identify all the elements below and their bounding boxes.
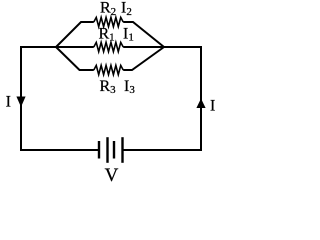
label I (left) bbox=[6, 94, 11, 111]
svg-text:I: I bbox=[6, 94, 11, 111]
svg-text:V: V bbox=[105, 165, 119, 186]
resistor R1 bbox=[94, 42, 123, 51]
wire bottom branch left diagonal bbox=[56, 47, 94, 70]
label I3 bbox=[124, 78, 135, 96]
wire top branch right diagonal bbox=[123, 22, 164, 47]
wire middle branch right bbox=[123, 46, 164, 48]
wire left vertical bbox=[20, 46, 22, 151]
label R3 bbox=[100, 78, 117, 96]
battery V bbox=[99, 137, 123, 163]
wire middle branch left bbox=[56, 46, 94, 48]
arrow current I down (left wire) bbox=[16, 97, 25, 108]
resistor R2 bbox=[94, 17, 123, 26]
resistor R3 bbox=[94, 65, 123, 74]
label I (right) bbox=[210, 98, 215, 115]
wire top branch left diagonal bbox=[56, 22, 94, 47]
svg-text:I: I bbox=[210, 98, 215, 115]
arrow current I up (right wire) bbox=[196, 99, 205, 109]
wire bottom left to battery bbox=[20, 149, 99, 151]
node right junction bbox=[164, 46, 165, 48]
wire battery to bottom right bbox=[123, 149, 203, 151]
label I1 bbox=[123, 25, 134, 43]
wire bottom branch right diagonal bbox=[123, 47, 164, 70]
label I2 bbox=[121, 0, 132, 18]
wire left branch horizontal bbox=[21, 46, 56, 48]
node left junction bbox=[56, 46, 57, 48]
label R2 bbox=[100, 0, 116, 18]
wire right vertical bbox=[163, 47, 201, 151]
label R1 bbox=[99, 25, 115, 43]
label V (battery) bbox=[105, 165, 119, 186]
